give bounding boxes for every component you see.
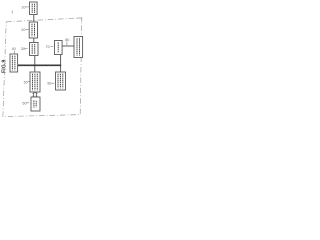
svg-text:10: 10 <box>21 5 25 9</box>
svg-text:40: 40 <box>12 47 16 51</box>
svg-text:90: 90 <box>47 82 51 86</box>
svg-text:80: 80 <box>65 38 69 42</box>
svg-text:20: 20 <box>21 28 25 32</box>
svg-text:50: 50 <box>24 81 28 85</box>
svg-text:30: 30 <box>21 47 25 51</box>
svg-text:60: 60 <box>22 101 26 105</box>
svg-text:70: 70 <box>46 45 50 49</box>
